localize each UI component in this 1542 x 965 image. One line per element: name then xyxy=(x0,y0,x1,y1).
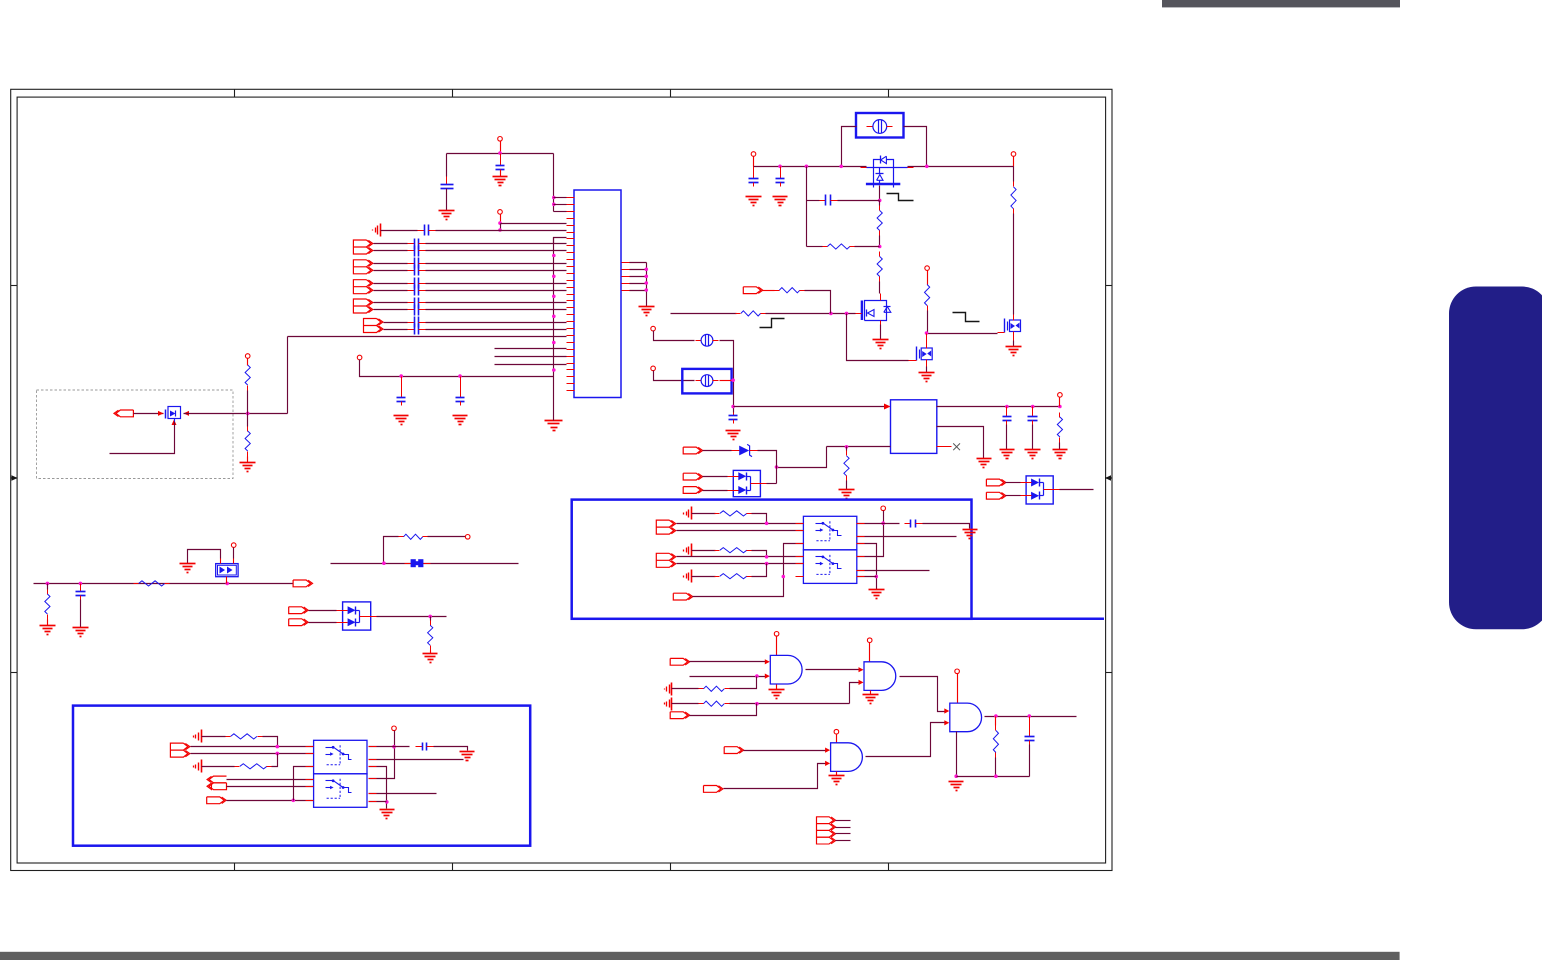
schematic border frame xyxy=(11,89,1113,870)
capacitor C bus3a xyxy=(408,278,426,289)
power pin P7 xyxy=(925,266,930,271)
junction P13 xyxy=(881,521,885,525)
connector in K1 xyxy=(114,410,133,417)
wire K6 lead xyxy=(1006,482,1021,484)
arrowhead U7A in2 xyxy=(765,674,770,679)
connector K4 xyxy=(683,473,703,480)
transistor Q4 xyxy=(909,334,933,367)
wire K11 route xyxy=(693,544,804,597)
wire R20 out xyxy=(272,754,278,767)
resistor R12 xyxy=(45,590,50,620)
power pin P10 xyxy=(1058,393,1063,398)
junction Q4 node xyxy=(925,331,929,335)
connector K15 xyxy=(670,712,690,719)
junction j7a xyxy=(765,555,769,559)
wire R2 gnd lead xyxy=(247,457,249,463)
wire D5 out xyxy=(377,616,447,618)
wire bus4b left xyxy=(374,309,408,311)
wire R15 top xyxy=(430,617,432,621)
wire bus3b right xyxy=(426,290,567,292)
junction right bundle xyxy=(645,268,649,272)
wire gnd rail xyxy=(957,776,1030,778)
bus connector J1 xyxy=(353,240,373,254)
wire R12 top xyxy=(47,584,49,590)
resistor R13 xyxy=(134,581,170,586)
capacitor C3 series xyxy=(418,225,436,236)
wire P17 lead xyxy=(957,674,959,704)
junction en2 xyxy=(292,799,296,803)
transistor Q1 xyxy=(861,156,914,188)
wire P4 lead xyxy=(247,359,249,366)
capacitor C11 xyxy=(1028,407,1038,425)
resistor R5 xyxy=(877,252,882,282)
capacitor C bus5b xyxy=(408,324,426,335)
wire J6b xyxy=(677,530,804,532)
ground Q4 xyxy=(919,373,935,382)
junction vout xyxy=(1005,405,1009,409)
wire K12b xyxy=(227,786,314,788)
wire vin rail left xyxy=(754,166,867,168)
ferrite bead FB1 xyxy=(405,559,431,567)
ground C2 xyxy=(493,177,508,186)
fuse F1 xyxy=(856,113,904,138)
wire Q5 gate xyxy=(110,422,175,454)
power pin P3 xyxy=(357,355,362,360)
wire R16 out xyxy=(752,514,767,524)
wire R6 to Q2 xyxy=(766,313,856,315)
dashed option box xyxy=(37,390,234,479)
wire K10 lead xyxy=(309,622,337,624)
junction reg in xyxy=(731,405,735,409)
junction v553 xyxy=(552,315,556,319)
junction r583b xyxy=(79,582,83,586)
wire C10 gnd xyxy=(1006,425,1008,450)
wire row 337 long xyxy=(288,336,567,338)
wire R3 top xyxy=(879,201,881,206)
capacitor C6 xyxy=(749,167,759,187)
wire sw2 link xyxy=(369,767,387,809)
capacitor C9 xyxy=(729,413,738,424)
wire R4 right xyxy=(855,246,880,248)
capacitor C bus5a xyxy=(408,317,426,328)
bus connector J5 xyxy=(364,319,384,333)
wire P13 vert xyxy=(857,511,884,557)
wire J8b xyxy=(191,753,314,755)
wire bus5b right xyxy=(426,329,567,331)
wire Q3 source xyxy=(1013,341,1015,347)
wire sw out2 xyxy=(857,536,957,538)
power pin P5 xyxy=(751,152,756,157)
wire P9 lead xyxy=(654,371,695,381)
wire F1 left xyxy=(842,127,857,167)
wire R3 bot xyxy=(879,236,881,247)
wire T6 xyxy=(672,688,699,690)
wire T5 xyxy=(202,766,235,768)
diode D1 zener xyxy=(732,444,758,456)
ground D4 xyxy=(180,564,196,573)
power pin P6 xyxy=(1011,152,1016,157)
wire R8 down xyxy=(1013,214,1015,315)
power pin P2 xyxy=(498,210,503,215)
wire P7 lead xyxy=(927,271,929,285)
resistor R7 xyxy=(775,288,805,293)
wire R1 to node xyxy=(247,391,249,414)
ground C4 xyxy=(394,416,409,425)
power pin P4 xyxy=(245,354,250,359)
junction R chain xyxy=(246,412,250,416)
resistor R17 xyxy=(715,548,752,553)
wire J9 stub xyxy=(836,820,851,822)
wire left branch xyxy=(806,167,808,247)
junction out1 xyxy=(994,714,998,718)
wire r536 vert xyxy=(384,537,399,564)
power pin P15 xyxy=(774,632,779,637)
resistor R23 xyxy=(993,726,998,758)
ground C10 xyxy=(1000,450,1015,459)
connector K10 xyxy=(289,619,309,626)
connector K7 xyxy=(986,492,1006,499)
junction D5 out xyxy=(428,615,432,619)
wire bus3b left xyxy=(374,290,408,292)
input arrow xyxy=(884,404,891,410)
junction row703 xyxy=(755,702,759,706)
wire sw2 out4 xyxy=(369,793,437,795)
wire D4 bottom xyxy=(226,582,228,584)
ground C9 xyxy=(726,431,741,440)
junction gnd rail2 xyxy=(994,774,998,778)
junction j8a xyxy=(276,745,280,749)
wire F1 right xyxy=(904,127,927,167)
wire Q4 gate route xyxy=(847,314,909,361)
resistor R9 xyxy=(925,280,930,311)
resistor R21 xyxy=(699,686,730,691)
chassis stub T3 xyxy=(684,570,692,583)
arrowhead U8A in1 xyxy=(859,667,864,672)
junction P14 xyxy=(392,745,396,749)
waveform mark W3 xyxy=(760,319,785,328)
arrowhead U8A in2 xyxy=(859,680,864,685)
chassis stub T5 xyxy=(194,760,202,773)
junction g1 xyxy=(829,312,833,316)
ground R15 xyxy=(423,654,438,663)
right border zone arrow xyxy=(1105,475,1112,480)
wire vout rail xyxy=(937,406,1060,408)
capacitor C bus2b xyxy=(408,265,426,276)
junction v553 xyxy=(552,295,556,299)
wire row5 a xyxy=(381,230,418,232)
junction zd xyxy=(775,465,779,469)
wire T7 xyxy=(672,703,699,705)
wire P18 lead xyxy=(836,735,838,743)
wire P5 lead xyxy=(753,157,755,167)
wire J7a xyxy=(677,556,804,558)
wire bus1a left xyxy=(374,243,408,245)
capacitor C10 xyxy=(1003,407,1012,425)
wire vin rail right xyxy=(908,166,1014,168)
ground swg xyxy=(869,590,885,599)
wire U10A in2 xyxy=(724,764,826,789)
wire C15 bot xyxy=(1029,745,1031,777)
analog switch U6 xyxy=(314,774,367,808)
wire K1 to Q5 xyxy=(134,413,164,415)
chassis stub T7 xyxy=(665,698,672,711)
junction pin1 xyxy=(552,196,556,200)
wire R5 bot xyxy=(879,282,881,294)
gate U9A xyxy=(950,703,982,732)
wire D2 out xyxy=(767,483,777,485)
navy rounded side tab xyxy=(1449,287,1542,630)
capacitor C bus3b xyxy=(408,285,426,296)
ground R10 xyxy=(1053,450,1068,459)
bus connector J3 xyxy=(353,280,373,294)
ground C13 xyxy=(963,530,978,539)
wire rail583 xyxy=(34,583,293,585)
wire U1 gnd lead xyxy=(553,377,555,421)
resistor R15 xyxy=(428,621,433,651)
arrowhead U9A in1 xyxy=(944,708,949,713)
wire P1 lead xyxy=(500,142,502,154)
wire sw2 out2 xyxy=(369,759,464,761)
wire K12a xyxy=(227,779,314,781)
capacitor C15 xyxy=(1025,717,1035,745)
capacitor C bus1a xyxy=(408,239,426,250)
resistor R11 xyxy=(844,451,849,481)
wire sw link xyxy=(857,544,877,590)
chassis stub row5 xyxy=(373,224,381,237)
wire riser x287 xyxy=(287,337,289,414)
wire U7A out xyxy=(806,669,860,671)
fuse F3 xyxy=(682,369,731,394)
wire bus2a left xyxy=(374,263,408,265)
capacitor C bus4a xyxy=(408,298,426,309)
wire R17 out xyxy=(752,551,767,557)
wire K16 lead xyxy=(744,750,826,752)
capacitor C5 xyxy=(456,377,465,406)
junction P2 row xyxy=(498,221,502,225)
power pin P14 xyxy=(392,726,397,731)
wire R11 top xyxy=(846,447,848,451)
capacitor C bus1b xyxy=(408,246,426,257)
wire T2 xyxy=(692,550,716,552)
resistor R10 xyxy=(1057,413,1062,443)
resistor R14 xyxy=(399,534,428,539)
resistor R18 xyxy=(715,574,752,579)
ground C11 xyxy=(1025,450,1041,459)
wire bus2b left xyxy=(374,270,408,272)
bus connector J2 xyxy=(353,260,373,274)
wire K13 route xyxy=(227,800,314,802)
wire sw out3 xyxy=(857,570,930,572)
connector K3 xyxy=(683,447,703,454)
power pin P11 xyxy=(231,543,236,548)
top dark bar xyxy=(1162,0,1400,7)
no-connect mark xyxy=(953,443,960,450)
capacitor C14 series xyxy=(416,743,434,751)
bus connector J6 xyxy=(656,520,676,534)
wire K4 lead xyxy=(703,476,728,478)
analog switch U5 xyxy=(314,740,367,774)
junction out2 xyxy=(1028,714,1032,718)
chassis stub T6 xyxy=(665,683,672,696)
capacitor C2 xyxy=(496,154,505,174)
connector K12 xyxy=(207,776,227,790)
junction 460 xyxy=(458,374,462,378)
capacitor C12 xyxy=(76,584,86,600)
gate U7A xyxy=(770,655,802,684)
junction swg xyxy=(875,575,879,579)
wire U1 right bundle xyxy=(630,263,647,307)
connector K8 out xyxy=(293,580,313,587)
wire Q5 drain xyxy=(184,413,288,415)
wire R23 bot xyxy=(995,758,997,777)
wire J8a xyxy=(191,746,314,748)
ground R12 xyxy=(40,626,56,635)
waveform mark W2 xyxy=(953,313,980,322)
ground C14 xyxy=(460,752,475,761)
wire P10 lead xyxy=(1059,398,1061,407)
wire row pin4 xyxy=(501,223,567,225)
wire row5 b xyxy=(436,230,567,232)
wire C13 out xyxy=(923,524,970,529)
junction row5 xyxy=(498,228,502,232)
wire J9 stub xyxy=(836,833,851,835)
wire J7b xyxy=(677,563,804,565)
wire U7A gnd lead xyxy=(776,685,778,690)
ground Q2 xyxy=(873,340,889,349)
wire R7 route xyxy=(805,291,831,314)
wire stub row 356 xyxy=(495,356,567,358)
junction vin rail xyxy=(839,165,843,169)
junction j7b xyxy=(765,562,769,566)
arrowhead U7A in1 xyxy=(765,659,770,664)
junction j6 xyxy=(765,522,769,526)
wire gate row b xyxy=(838,200,880,202)
wire U9A gnd lead xyxy=(956,732,958,777)
wire K14 to U7A xyxy=(690,661,766,663)
wire T3 xyxy=(692,576,716,578)
wire Q1 gate xyxy=(879,186,881,201)
arrowhead U10A in2 xyxy=(825,761,830,766)
transistor Q5 xyxy=(158,407,189,426)
capacitor C bus4b xyxy=(408,305,426,316)
junction v553 xyxy=(552,341,556,345)
diode pack D5 xyxy=(337,602,377,630)
wire vertical 553 xyxy=(553,238,555,377)
ground C5 xyxy=(453,416,468,425)
wire fb route xyxy=(777,447,827,468)
bus connector J9 xyxy=(816,817,836,845)
wire R12 gnd xyxy=(47,620,49,626)
wire U7A in2 xyxy=(690,676,766,678)
wire sw2 out1 xyxy=(369,746,410,748)
block box B1 xyxy=(572,500,972,619)
chassis stub T2 xyxy=(684,544,692,557)
U2 pin3 stub xyxy=(937,446,952,448)
wire R19 out xyxy=(263,737,278,747)
wire P6 to R8 xyxy=(1013,167,1015,182)
connector K14 xyxy=(670,658,690,665)
wire pin3 stub xyxy=(554,211,567,213)
wire pin1 stub xyxy=(554,197,567,199)
IC U1 left pins xyxy=(567,198,575,391)
ground R2 xyxy=(240,463,256,472)
gate U10A xyxy=(831,743,863,772)
connector K16 xyxy=(724,747,744,754)
junction Q1 gate xyxy=(878,199,882,203)
wire K7 lead xyxy=(1006,495,1021,497)
wire en2 vert xyxy=(294,767,314,801)
wire R21 route xyxy=(730,677,757,689)
transistor Q3 xyxy=(998,315,1021,341)
junction g2 xyxy=(845,312,849,316)
block box B2 xyxy=(73,706,530,846)
resistor R4 xyxy=(823,244,855,249)
resistor R16 xyxy=(715,511,752,516)
junction swg2 xyxy=(385,800,389,804)
junction v553 xyxy=(552,275,556,279)
junction j8b xyxy=(276,752,280,756)
ground C6 xyxy=(746,197,762,206)
wire P15 lead xyxy=(776,637,778,656)
junction R4 node xyxy=(878,245,882,249)
wire pin6 jog xyxy=(554,238,567,244)
power pin P9 xyxy=(651,366,656,371)
junction en xyxy=(782,575,786,579)
IC U1 right pins xyxy=(622,263,630,291)
wire bus5a right xyxy=(426,322,567,324)
resistor R2 xyxy=(245,427,250,457)
ground C7 xyxy=(773,197,788,206)
ground R11 xyxy=(839,490,855,499)
resistor R3 xyxy=(877,206,882,236)
wire P6 lead xyxy=(1013,157,1015,167)
connector K2 xyxy=(743,287,763,294)
wire bus5b left xyxy=(384,329,408,331)
ground out2 xyxy=(977,459,992,468)
wire K9 lead xyxy=(309,610,337,612)
wire R4 left xyxy=(807,246,823,248)
wire U2 out2 xyxy=(937,427,984,459)
junction top rail xyxy=(498,151,502,155)
power pin P12 xyxy=(465,535,470,540)
wire bus5a left xyxy=(384,322,408,324)
ground right bundle xyxy=(639,307,655,316)
ground C1 xyxy=(439,211,455,220)
capacitor C1 xyxy=(441,177,454,193)
junction F node xyxy=(731,378,735,382)
wire C2 gnd lead xyxy=(500,170,502,177)
wire Q2 source xyxy=(880,325,882,340)
diode pack D3 xyxy=(1021,476,1060,504)
junction vin rail xyxy=(925,165,929,169)
wire stub row 364 xyxy=(495,364,567,366)
resistor R1 xyxy=(245,361,250,391)
connector K17 xyxy=(704,786,724,793)
diode pack D2 xyxy=(728,470,767,496)
wire R10 gnd xyxy=(1059,443,1061,450)
arrowhead U9A in2 xyxy=(944,720,949,725)
wire P16 lead xyxy=(869,643,871,662)
wire fb row xyxy=(827,446,891,448)
wire D4 gnd arm xyxy=(188,550,221,564)
wire K15 route xyxy=(690,704,757,716)
ground U7A xyxy=(769,690,785,699)
resistor R6 xyxy=(736,311,766,316)
power pin P13 xyxy=(881,506,886,511)
wire bus1a right xyxy=(426,243,567,245)
wire C11 gnd xyxy=(1032,425,1034,450)
wire top rail xyxy=(447,153,554,155)
